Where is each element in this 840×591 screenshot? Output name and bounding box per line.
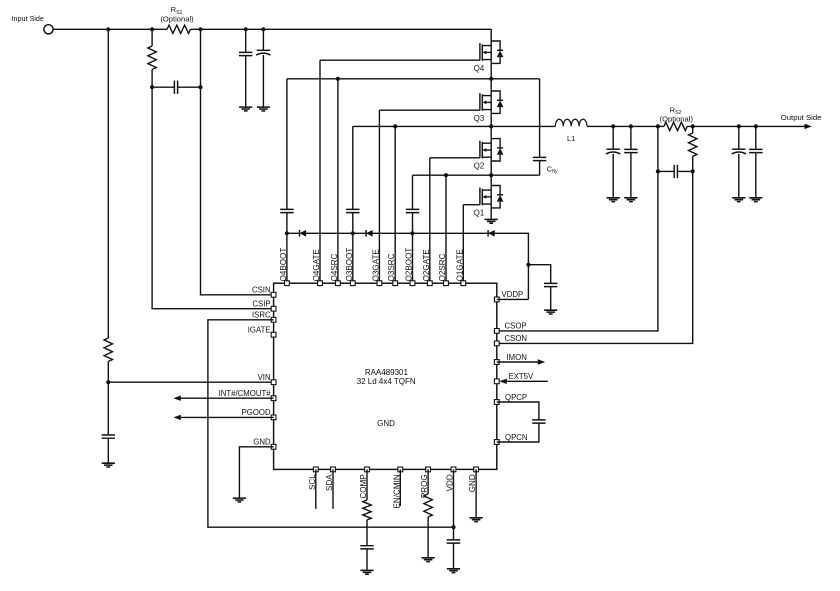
capacitor C3 input [239,52,252,55]
resistor R4 sense [689,133,697,156]
svg-text:Input Side: Input Side [12,14,44,23]
op-amp U1 RAA489301 body [274,283,497,469]
wire Q3GATE [379,110,480,283]
label pin COMP bottom [359,474,368,498]
pin VIN [271,380,276,385]
label pin Q4BOOT [279,248,288,282]
svg-text:RAA489301: RAA489301 [365,368,409,377]
wire SDA stub [332,469,334,508]
pin IGATE [271,332,276,337]
pin Q3GATE [377,281,382,286]
label pin Q1GATE [455,249,464,282]
arrow INT#/CMOUT# [173,396,273,401]
svg-text:EXT5V: EXT5V [509,372,534,381]
wire mosfet column [490,29,492,219]
node Q2-Q1 [489,173,493,177]
capacitor C2 VIN [102,435,115,438]
label pin Q2GATE [422,249,431,282]
wire CSIP riser [152,87,274,309]
capacitor Q4 bootstrap [280,209,293,212]
wire ISRC loop [208,320,454,527]
capacitor C10 VDDP [544,283,557,286]
wire QPCP loop [497,402,539,442]
wire VIN junction [108,362,273,383]
svg-text:L1: L1 [567,134,575,143]
svg-text:CSIP: CSIP [252,300,270,309]
wire VIN cap lead [107,382,109,435]
wire VIN cap to gnd [107,438,109,463]
capacitor C7 output [624,149,637,152]
wire input cap2 leads [262,29,264,107]
wire RS1 sense left [151,29,153,46]
capacitor C6 output bulk [606,149,620,154]
label RS2 [670,105,682,116]
svg-text:QPCN: QPCN [505,433,528,442]
label pin INT#/CMOUT# [219,389,272,398]
capacitor C9 output [749,149,762,152]
node output rail H [656,124,660,128]
pin SCL bottom [313,467,318,472]
junction Q4BOOT bus [285,231,289,235]
wire Q2SRC line [413,174,540,176]
label U1 package [357,377,416,386]
wire Q2BOOT riser [412,175,414,283]
ground VDD [447,569,460,573]
svg-text:GND: GND [253,438,271,447]
label pin CSOP [505,322,527,331]
resistor RS1 [167,25,191,33]
label pin Q4GATE [312,249,321,282]
diode D3 bootstrap [488,230,495,237]
junction Q4SRC tap [336,77,340,81]
ground GND left [233,498,246,502]
wire C7 leads [630,126,632,197]
pin Q4GATE [318,281,323,286]
label pin GND bottom [468,474,477,492]
wire CSOP riser [497,126,658,331]
label Output Side [781,113,822,122]
ground Q1 source [485,219,498,223]
svg-text:IGATE: IGATE [248,326,271,335]
svg-text:Q3GATE: Q3GATE [371,249,380,282]
svg-text:Q2: Q2 [474,161,484,170]
ground GND bottom [470,518,483,522]
junction Q3BOOT bus [351,231,355,235]
arrow EXT5V [499,379,547,384]
wire Q3BOOT riser [352,126,354,283]
svg-text:CSOP: CSOP [505,322,527,331]
svg-text:32 Ld 4x4 TQFN: 32 Ld 4x4 TQFN [357,377,416,386]
pin GND bottom [474,467,479,472]
output arrow [805,124,812,129]
wire Q4SRC riser [337,79,339,283]
wire R1 to cap [151,70,153,88]
diode D2 bootstrap [366,230,373,237]
wire Q2GATE [430,158,480,283]
node input rail D [244,27,248,31]
label pin IMON [507,353,527,362]
node input rail C [198,27,202,31]
pin EN/CMIN bottom [398,467,403,472]
junction sense right [198,85,202,89]
pin IMON [494,360,499,365]
label pin Q4SRC [330,253,339,281]
wire input rail [53,28,491,30]
input terminal [44,25,53,34]
pin Q2SRC [444,281,449,286]
label Input Side [12,14,44,23]
ground C9 [749,198,762,202]
capacitor C8 output bulk [732,149,746,154]
label RS1 optional [160,15,194,24]
wire CSON riser [497,126,693,343]
resistor RS2 [664,122,687,130]
svg-text:Q2BOOT: Q2BOOT [405,248,414,282]
svg-text:Output Side: Output Side [781,113,822,122]
node output rail I [691,124,695,128]
pin PGOOD [271,415,276,420]
arrow IMON [497,359,545,364]
label pin SCL bottom [308,474,317,490]
capacitor Q3 bootstrap [346,209,359,212]
svg-text:INT#/CMOUT#: INT#/CMOUT# [219,389,272,398]
junction Q2BOOT bus [410,231,414,235]
svg-text:Q3: Q3 [474,114,484,123]
svg-text:ISRC: ISRC [252,311,271,320]
node VIN [106,380,110,384]
wire Cfly riser [539,79,541,175]
svg-text:QPCP: QPCP [505,393,527,402]
label pin GND [253,438,271,447]
pin Q4BOOT [285,281,290,286]
svg-text:GND: GND [377,419,395,428]
ground VIN [102,463,115,467]
transistor Q4 [474,41,504,73]
node output rail J [737,124,741,128]
label RS2 optional [660,114,694,123]
resistor R5 COMP [363,500,371,520]
wire EN/CMIN stub [399,469,401,506]
resistor R6 PROG [424,494,432,517]
svg-text:(Optional): (Optional) [660,114,694,123]
pin CSOP [494,329,499,334]
label pin EN/CMIN bottom [392,474,401,508]
label pin CSIN [252,286,271,295]
label pin CSIP [252,300,270,309]
transistor Q2 [474,139,504,171]
ground PROG [422,558,435,562]
svg-text:CSON: CSON [505,334,528,343]
label pin VIN [258,373,271,382]
capacitor Q2 bootstrap [406,209,419,212]
label U1 part number [365,368,409,377]
wire GND bottom stub [475,469,477,517]
junction Q3SRC tap [393,124,397,128]
pin Q2BOOT [410,281,415,286]
wire SCL stub [315,469,317,508]
wire VIN riser top [107,29,109,338]
wire out sense cap leads [658,170,693,172]
label pin QPCN [505,433,528,442]
pin Q3BOOT [350,281,355,286]
wire VDD chain [453,469,455,568]
arrow PGOOD [173,415,273,420]
ground C6 [607,198,620,202]
transistor Q3 [474,91,504,123]
pin Q2GATE [427,281,432,286]
junction Q2SRC tap [444,173,448,177]
pin GND [271,444,276,449]
svg-text:VDDP: VDDP [502,290,524,299]
label pin PROG bottom [420,474,429,498]
resistor R1 sense [148,46,156,70]
node input rail E [261,27,265,31]
wire Q1GATE [463,205,480,284]
capacitor Cfly [533,157,546,160]
node ISRC-VDD [451,525,455,529]
pin SDA bottom [331,467,336,472]
wire Q4GATE [320,60,480,283]
capacitor C13 VDD [447,540,460,543]
svg-text:CSIN: CSIN [252,286,271,295]
wire VDDP [497,298,529,300]
wire Q4SRC line [287,78,540,80]
wire CSIN riser [201,87,274,295]
node Q3-Q2 switch [489,124,493,128]
pin EXT5V [494,379,499,384]
label pin QPCP [505,393,527,402]
svg-text:Q4: Q4 [474,64,485,73]
svg-text:IMON: IMON [507,353,527,362]
ground C7 [624,198,637,202]
wire C8 leads [738,126,740,197]
label RS1 [171,5,183,16]
pin INT#/CMOUT# [271,396,276,401]
node output rail G [629,124,633,128]
node output rail K [754,124,758,128]
svg-text:Q4GATE: Q4GATE [312,249,321,282]
pin QPCP [494,400,499,405]
svg-text:Q4BOOT: Q4BOOT [279,248,288,282]
diode D1 bootstrap [300,230,307,237]
pin CSIP [271,306,276,311]
label pin Q3SRC [387,253,396,281]
pin COMP bottom [365,467,370,472]
pin QPCN [494,440,499,445]
label L1 [567,134,575,143]
label pin VDD bottom [446,474,455,491]
svg-text:Q3SRC: Q3SRC [387,253,396,281]
wire VDDP decap branch [528,265,550,311]
pin PROG bottom [426,467,431,472]
label pin PGOOD [242,408,271,417]
svg-text:Q1GATE: Q1GATE [455,249,464,282]
wire C6 leads [612,126,614,197]
pin Q4SRC [336,281,341,286]
capacitor C1 sense [174,81,177,94]
node input rail A [106,27,110,31]
wire boot diode bus [287,233,529,299]
wire input cap1 leads [245,29,247,107]
capacitor C5 out sense [674,165,677,178]
pin VDDP [494,297,499,302]
inductor L1 [555,119,587,126]
svg-text:Q3BOOT: Q3BOOT [345,248,354,282]
label pin Q3BOOT [345,248,354,282]
wire Q2SRC riser [445,175,447,283]
label pin Q2SRC [438,253,447,281]
svg-text:PGOOD: PGOOD [242,408,271,417]
label pin VDDP [502,290,524,299]
pin ISRC [271,317,276,322]
wire Q4BOOT riser [286,79,288,283]
node input rail B [150,27,154,31]
junction out sense left [656,169,660,173]
label U1 GND pad [377,419,395,428]
label pin CSON [505,334,528,343]
node output rail F [611,124,615,128]
ground VDDP cap [544,310,557,314]
svg-text:Q2SRC: Q2SRC [438,253,447,281]
ground C8 [732,198,745,202]
wire GND left [239,447,273,498]
svg-text:Q4SRC: Q4SRC [330,253,339,281]
node Q4-Q3 [489,77,493,81]
pin CSIN [271,292,276,297]
junction sense left [150,85,154,89]
svg-text:VIN: VIN [258,373,271,382]
capacitor C12 COMP [360,546,373,549]
pin VDD bottom [451,467,456,472]
wire Q3SRC riser [394,126,396,283]
resistor R2 VIN [104,338,112,362]
ground COMP [360,570,373,574]
label pin IGATE [248,326,271,335]
wire COMP chain [366,469,368,570]
ground input cap2 [257,107,270,111]
svg-text:(Optional): (Optional) [160,15,194,24]
capacitor C11 QPCP [532,420,545,423]
label pin Q3GATE [371,249,380,282]
capacitor C4 input bulk [256,50,270,55]
transistor Q1 [474,186,504,218]
label pin SDA bottom [325,474,334,491]
svg-text:Q2GATE: Q2GATE [422,249,431,282]
svg-text:Q1: Q1 [474,208,484,217]
junction out sense right [691,169,695,173]
pin CSON [494,341,499,346]
wire output rail [587,125,805,127]
wire sense cap leads [152,29,200,87]
label Cfly [547,164,558,175]
ground input cap1 [239,107,252,111]
pin Q1GATE [461,281,466,286]
pin Q3SRC [393,281,398,286]
label pin Q2BOOT [405,248,414,282]
wire C9 leads [755,126,757,197]
wire SW to L1 [353,125,556,127]
junction VDDP cap tap [526,263,530,267]
wire PROG chain [427,469,429,557]
label pin EXT5V [509,372,534,381]
label pin ISRC [252,311,271,320]
